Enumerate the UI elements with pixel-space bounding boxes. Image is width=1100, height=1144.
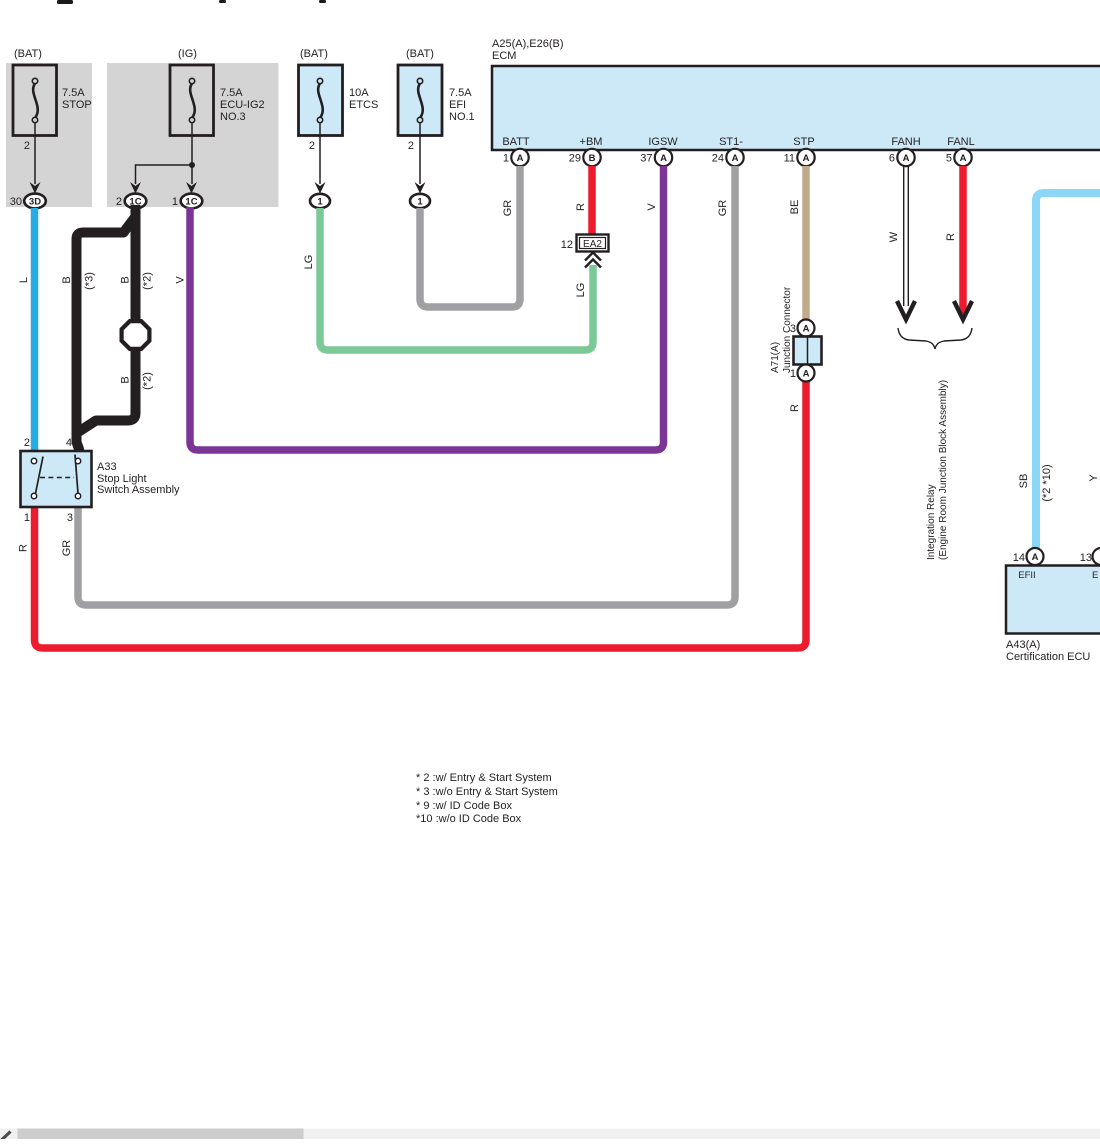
connector 3D (pin 30) <box>24 194 46 209</box>
ECM pin 37 A (IGSW) <box>655 149 672 166</box>
svg-text:EA2: EA2 <box>583 239 602 250</box>
svg-text:*10 :w/o ID Code Box: *10 :w/o ID Code Box <box>416 813 522 825</box>
A43 pin 14 A <box>1027 548 1044 565</box>
wire R red: ECM +BM to EA2 <box>588 166 596 235</box>
svg-text:* 2 :w/ Entry & Start System: * 2 :w/ Entry & Start System <box>416 772 552 784</box>
svg-text:(BAT): (BAT) <box>406 48 434 60</box>
svg-text:R: R <box>945 233 957 241</box>
wire LG green: ETCS connector to EA2 <box>320 208 593 350</box>
svg-text:NO.1: NO.1 <box>449 111 475 123</box>
svg-text:1: 1 <box>172 196 178 208</box>
svg-text:BATT: BATT <box>502 136 530 148</box>
stop light switch assembly A33 <box>21 451 92 507</box>
svg-text:(*2): (*2) <box>142 272 154 290</box>
svg-text:30: 30 <box>10 196 22 208</box>
svg-text:* 9 :w/ ID Code Box: * 9 :w/ ID Code Box <box>416 800 512 812</box>
svg-text:B: B <box>120 276 132 283</box>
ECM pin 6 A (FANH) <box>897 149 914 166</box>
svg-text:EFI: EFI <box>449 99 466 111</box>
wire R red: ECM FANL down with arrow <box>959 166 967 314</box>
svg-text:A: A <box>803 324 810 335</box>
ECM pin 1 A (BATT) <box>511 149 528 166</box>
svg-text:Integration Relay: Integration Relay <box>926 484 937 560</box>
svg-text:A: A <box>732 153 739 164</box>
svg-text:Switch Assembly: Switch Assembly <box>97 484 180 496</box>
svg-text:A: A <box>903 153 910 164</box>
svg-text:A: A <box>803 369 810 380</box>
svg-text:B: B <box>120 376 132 383</box>
switch contacts <box>31 455 80 499</box>
svg-text:V: V <box>646 203 658 211</box>
svg-text:ST1-: ST1- <box>719 136 743 148</box>
junction connector A71(A) <box>798 320 815 337</box>
title (cut off at top edge, only descenders visible) <box>57 0 326 4</box>
wire B black (*2 branch) lower <box>79 349 136 432</box>
shield connector EA2 (pin 12) <box>577 235 609 252</box>
wire BE beige: ECM STP to junction connector A71 <box>802 166 810 320</box>
svg-text:12: 12 <box>561 239 573 251</box>
connector 1C (pin 1) <box>181 194 203 209</box>
svg-text:ETCS: ETCS <box>349 99 378 111</box>
ECM pin 11 A (STP) <box>797 149 814 166</box>
connector 1C (pin 2) <box>125 194 147 209</box>
svg-text:R: R <box>789 404 801 412</box>
svg-text:1: 1 <box>503 153 509 165</box>
svg-text:SB: SB <box>1018 474 1030 489</box>
wire GR gray: EFI connector to ECM BATT <box>420 166 520 307</box>
wire B black (*3 branch): 1C pin2 to switch pin 4 <box>77 205 136 452</box>
svg-text:(IG): (IG) <box>178 48 197 60</box>
svg-text:(*2 *10): (*2 *10) <box>1041 464 1053 501</box>
svg-text:NO.3: NO.3 <box>220 111 246 123</box>
svg-text:(*2): (*2) <box>142 372 154 390</box>
svg-text:A25(A),E26(B): A25(A),E26(B) <box>492 38 564 50</box>
wire fuse EFI to connector 1 <box>419 123 421 184</box>
svg-text:5: 5 <box>946 153 952 165</box>
svg-text:LG: LG <box>303 255 315 270</box>
svg-text:2: 2 <box>116 196 122 208</box>
svg-text:L: L <box>18 277 30 283</box>
svg-text:11: 11 <box>784 153 795 165</box>
svg-text:Y: Y <box>1088 474 1100 482</box>
svg-text:14: 14 <box>1013 552 1025 564</box>
svg-text:BE: BE <box>789 200 801 215</box>
svg-text:2: 2 <box>24 140 30 152</box>
wire V violet: 1C pin1 to ECM IGSW <box>190 166 664 450</box>
svg-text:7.5A: 7.5A <box>449 87 472 99</box>
dashed mechanical link <box>40 477 74 479</box>
svg-text:1C: 1C <box>185 197 197 208</box>
svg-text:(Engine Room Junction Block As: (Engine Room Junction Block Assembly) <box>938 380 949 560</box>
svg-text:ECM: ECM <box>492 50 516 62</box>
svg-text:A43(A): A43(A) <box>1006 639 1040 651</box>
fuse F1 7.5A STOP <box>13 65 57 136</box>
svg-text:2: 2 <box>24 437 30 449</box>
fuse F2 7.5A ECU-IG2 NO.3 <box>170 65 214 136</box>
svg-text:R: R <box>18 544 30 552</box>
svg-text:(BAT): (BAT) <box>300 48 328 60</box>
svg-text:13: 13 <box>1080 552 1092 564</box>
certification ECU A43(A) box <box>1006 566 1100 634</box>
svg-text:4: 4 <box>66 437 72 449</box>
svg-text:* 3 :w/o Entry & Start System: * 3 :w/o Entry & Start System <box>416 786 558 798</box>
svg-text:(*3): (*3) <box>84 272 96 290</box>
svg-text:2: 2 <box>309 140 315 152</box>
wire fuse STOP to connector 3D <box>34 123 36 184</box>
svg-text:A: A <box>517 153 524 164</box>
wire branch to connector 1C pin 2 <box>136 165 193 184</box>
wire SB sky blue: to A43 pin 14 <box>1036 193 1100 549</box>
svg-text:LG: LG <box>575 283 587 298</box>
svg-text:B: B <box>589 153 596 164</box>
svg-text:1: 1 <box>317 197 323 208</box>
ECM pin 24 A (ST1-) <box>726 149 743 166</box>
svg-text:IGSW: IGSW <box>648 136 678 148</box>
wire B black (*2 branch) upper <box>131 205 141 321</box>
svg-text:3D: 3D <box>29 197 41 208</box>
wire W white: ECM FANH down with arrow <box>903 166 905 306</box>
svg-text:R: R <box>575 203 587 211</box>
svg-text:W: W <box>888 231 900 242</box>
bottom scrollbar <box>0 1129 1100 1140</box>
svg-text:GR: GR <box>502 200 514 217</box>
svg-text:1: 1 <box>417 197 423 208</box>
svg-text:2: 2 <box>408 140 414 152</box>
svg-text:+BM: +BM <box>580 136 603 148</box>
svg-text:A: A <box>960 153 967 164</box>
chevrons below EA2 <box>585 253 601 268</box>
svg-text:1: 1 <box>24 512 30 524</box>
svg-text:GR: GR <box>717 200 729 217</box>
brace under FANH/FANL arrows <box>898 328 972 349</box>
svg-text:A: A <box>660 153 667 164</box>
A43 pin 13 (cut off) <box>1093 548 1100 565</box>
svg-text:Certification ECU: Certification ECU <box>1006 651 1090 663</box>
svg-text:FANL: FANL <box>947 136 975 148</box>
svg-text:7.5A: 7.5A <box>62 87 85 99</box>
svg-text:29: 29 <box>569 153 581 165</box>
svg-text:V: V <box>175 276 187 284</box>
svg-text:7.5A: 7.5A <box>220 87 243 99</box>
svg-text:37: 37 <box>640 153 652 165</box>
svg-text:A: A <box>803 153 810 164</box>
fuse F4 7.5A EFI NO.1 <box>398 65 442 136</box>
connector octagon in B wire <box>122 321 150 349</box>
svg-text:A33: A33 <box>97 461 117 473</box>
wire L blue: 3D to stop light switch pin 2 <box>31 208 39 451</box>
svg-text:(BAT): (BAT) <box>14 48 42 60</box>
svg-text:GR: GR <box>61 540 73 557</box>
connector 1 (EFI) <box>410 194 430 208</box>
svg-text:6: 6 <box>889 153 895 165</box>
wire fuse ETCS to connector 1 <box>319 123 321 184</box>
connector 1 (ETCS) <box>310 194 330 208</box>
svg-text:STP: STP <box>793 136 814 148</box>
junction dot <box>189 162 195 168</box>
ECM pin 5 A (FANL) <box>954 149 971 166</box>
svg-text:B: B <box>61 276 73 283</box>
svg-text:FANH: FANH <box>891 136 920 148</box>
svg-text:A: A <box>1032 552 1039 563</box>
svg-text:EFII: EFII <box>1018 570 1035 581</box>
ECM pin 29 B (+BM) <box>583 149 600 166</box>
svg-text:24: 24 <box>712 153 724 165</box>
svg-text:ECU-IG2: ECU-IG2 <box>220 99 265 111</box>
wire GR gray: switch pin 3 to ECM ST1- <box>78 166 735 605</box>
fuse block shading (BAT STOP) <box>6 63 92 207</box>
wire fuse ECU-IG2 down <box>191 123 193 184</box>
svg-text:10A: 10A <box>349 87 369 99</box>
svg-text:Junction Connector: Junction Connector <box>782 286 793 373</box>
svg-text:STOP: STOP <box>62 99 92 111</box>
fuse block shading (IG ECU-IG2) <box>107 63 279 207</box>
fuse F3 10A ETCS <box>299 65 343 136</box>
wire R red: switch pin 1 to junction connector A71 <box>35 381 807 648</box>
svg-text:A71(A): A71(A) <box>770 342 781 373</box>
svg-text:E: E <box>1092 570 1098 581</box>
svg-text:3: 3 <box>67 512 73 524</box>
